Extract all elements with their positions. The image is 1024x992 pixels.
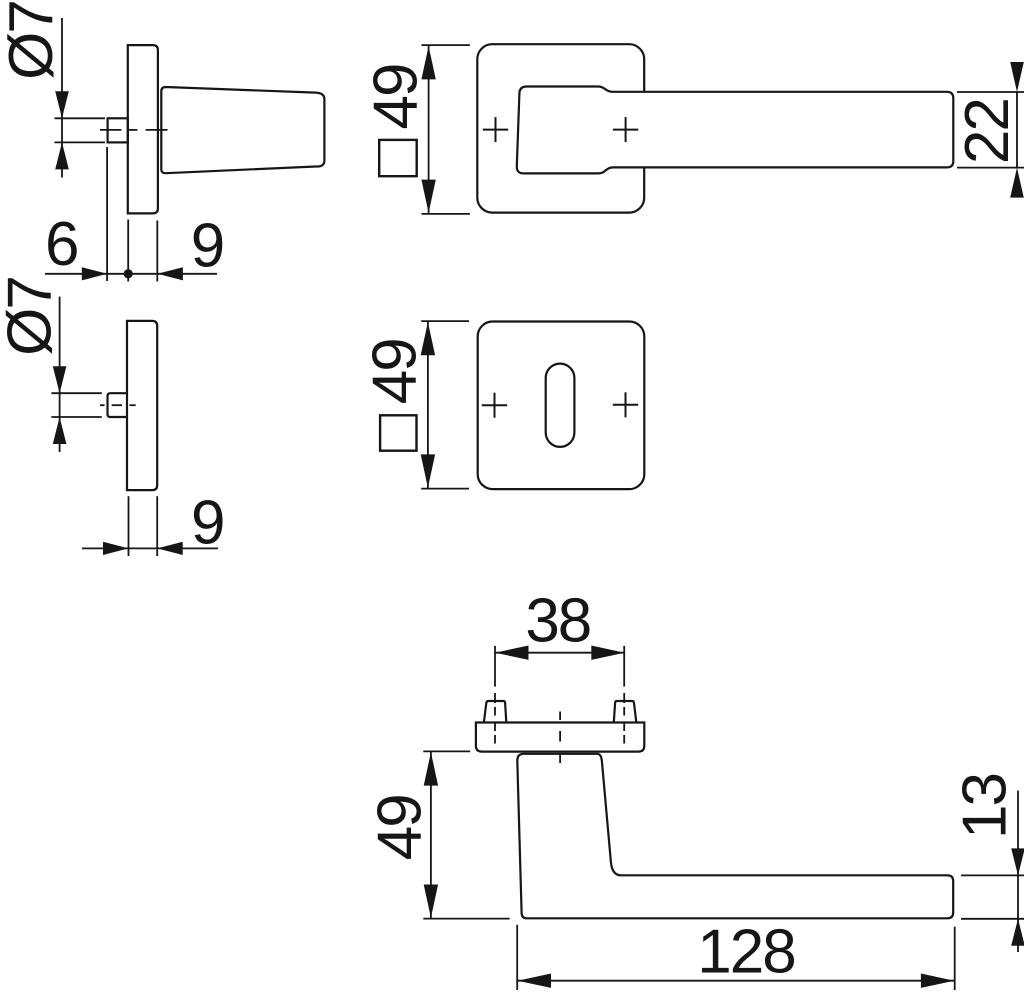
Ø7 arrow upper A — [55, 91, 69, 118]
handle top view (neck + lever bar) — [517, 87, 954, 174]
49 dimension line D — [427, 321, 429, 489]
49 arrow up B — [421, 46, 435, 79]
screw cross left D — [482, 393, 507, 418]
Ø7 arrow lower A — [55, 142, 69, 169]
13 ext line bottom — [961, 918, 1024, 920]
svg-text:38: 38 — [525, 587, 590, 656]
Ø7 ext line bottom A — [55, 141, 106, 143]
svg-text:49: 49 — [365, 795, 434, 860]
49 arrow up D — [421, 322, 435, 355]
38 arrow right — [591, 646, 624, 660]
centerline C — [100, 404, 105, 406]
22 arrow upper — [1010, 62, 1024, 92]
ext line spindle face — [106, 147, 108, 281]
49 arrow down D — [421, 454, 435, 487]
screw cross left B — [483, 117, 508, 142]
49 arrow down B — [421, 180, 435, 213]
9 dimension line C — [82, 547, 218, 549]
22 dimension line — [1016, 92, 1018, 168]
square symbol D — [380, 415, 416, 450]
128 arrow right — [921, 974, 954, 988]
ext line plate left C — [128, 496, 130, 556]
keyhole — [546, 364, 575, 447]
13 dimension line — [1017, 791, 1019, 952]
arrow 6 left — [82, 267, 108, 280]
49 dimension line B — [428, 45, 430, 214]
svg-text:13: 13 — [950, 774, 1019, 839]
49 arrow up E — [424, 752, 438, 785]
22 ext line bottom — [957, 167, 1024, 169]
centerline left stud — [494, 693, 496, 744]
13 ext line top — [961, 874, 1024, 876]
svg-text:49: 49 — [362, 65, 431, 130]
ext line plate right C — [156, 496, 158, 556]
128 ext line left — [516, 925, 518, 990]
spindle centerline — [559, 712, 561, 764]
svg-text:22: 22 — [953, 99, 1022, 164]
rose plate (side) — [128, 45, 158, 213]
22 arrow lower — [1010, 168, 1024, 198]
38 arrow left — [495, 646, 528, 660]
128 dimension line — [517, 980, 955, 982]
Ø7 dimension line A — [61, 18, 63, 178]
spindle stub — [108, 118, 128, 142]
49 end line top E — [423, 750, 470, 752]
svg-text:128: 128 — [697, 917, 794, 986]
rosette edge view E — [476, 723, 644, 752]
handle grip (tapered) — [161, 87, 324, 173]
13 arrow upper — [1011, 848, 1024, 875]
Ø7 ext line bottom C — [51, 416, 101, 418]
Ø7 ext line top A — [55, 117, 106, 119]
49 end line top D — [421, 320, 469, 322]
junction dot — [124, 269, 133, 278]
svg-text:Ø7: Ø7 — [0, 277, 65, 356]
svg-text:6: 6 — [45, 210, 77, 279]
arrow 9 right — [157, 267, 183, 280]
13 arrow lower — [1011, 919, 1024, 946]
svg-text:9: 9 — [191, 212, 223, 281]
key plate (side) — [127, 321, 157, 490]
Ø7 dimension line C — [59, 297, 61, 452]
ext line right stud — [623, 646, 625, 687]
screw cross right B — [613, 117, 638, 142]
screw stud left — [484, 701, 506, 722]
centerline A — [100, 129, 121, 131]
screw stud right — [614, 701, 637, 722]
49 end line bottom D — [421, 488, 469, 490]
128 arrow left — [518, 974, 551, 988]
centerline right stud — [623, 693, 625, 744]
22 ext line top — [957, 91, 1024, 93]
ext line left stud — [494, 646, 496, 687]
arrow 9 right C — [157, 542, 183, 555]
Ø7 ext line top C — [51, 392, 101, 394]
38 dimension line — [495, 652, 625, 654]
handle outline E — [517, 754, 953, 919]
49 end line bottom E — [423, 918, 509, 920]
Ø7 arrow lower C — [53, 417, 67, 444]
Ø7 arrow upper C — [53, 366, 67, 393]
svg-text:49: 49 — [361, 339, 430, 404]
ext line rose left — [127, 220, 129, 282]
49 arrow down E — [424, 885, 438, 918]
arrow 9 left C — [103, 542, 129, 555]
svg-text:Ø7: Ø7 — [0, 1, 66, 80]
square symbol B — [379, 140, 417, 176]
screw cross right D — [613, 392, 638, 417]
49 dimension line E — [430, 752, 432, 919]
49 end line bottom B — [422, 213, 470, 215]
square key rosette D — [478, 322, 645, 490]
key stub — [108, 393, 128, 417]
128 ext line right — [954, 927, 956, 990]
square rosette B — [477, 44, 644, 212]
6/9 dimension line A — [45, 273, 217, 275]
svg-text:9: 9 — [191, 489, 223, 558]
ext line rose right — [156, 221, 158, 282]
49 end line top B — [422, 44, 470, 46]
